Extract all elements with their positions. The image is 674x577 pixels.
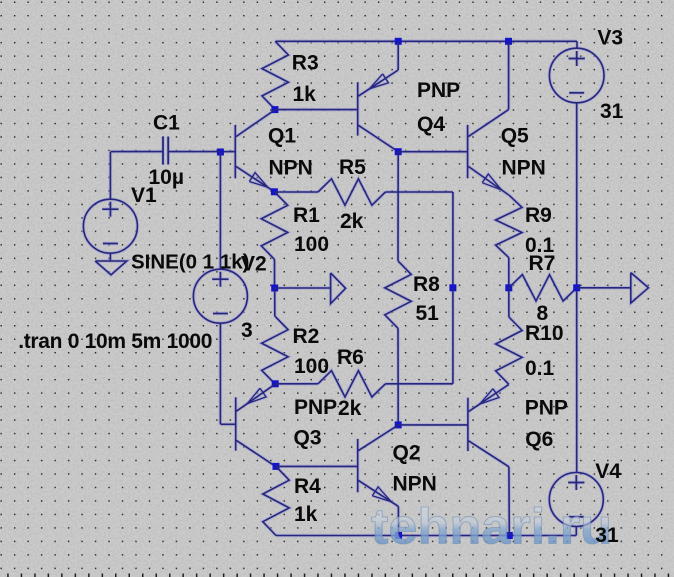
svg-text:R8: R8 [413, 273, 440, 296]
svg-text:R2: R2 [293, 325, 320, 348]
svg-text:V3: V3 [597, 27, 623, 50]
svg-text:R4: R4 [294, 475, 321, 498]
svg-text:31: 31 [600, 100, 624, 123]
svg-text:31: 31 [595, 524, 619, 547]
svg-text:1k: 1k [294, 503, 318, 526]
svg-text:SINE(0 1 1k): SINE(0 1 1k) [131, 251, 250, 274]
svg-text:Q4: Q4 [417, 113, 445, 136]
svg-text:R10: R10 [525, 322, 564, 345]
svg-text:R7: R7 [529, 252, 556, 275]
svg-text:V1: V1 [131, 184, 157, 207]
svg-text:tehnari.ru: tehnari.ru [371, 499, 612, 555]
svg-text:R5: R5 [339, 156, 366, 179]
svg-text:Q6: Q6 [525, 428, 553, 451]
svg-text:100: 100 [294, 233, 329, 256]
svg-text:PNP: PNP [525, 397, 568, 420]
svg-text:3: 3 [241, 319, 253, 342]
svg-text:Q2: Q2 [393, 442, 421, 465]
svg-text:R3: R3 [292, 51, 319, 74]
svg-text:2k: 2k [338, 397, 362, 420]
svg-text:2k: 2k [340, 210, 364, 233]
svg-text:NPN: NPN [502, 157, 546, 180]
svg-text:0.1: 0.1 [525, 357, 555, 380]
svg-text:Q3: Q3 [294, 427, 322, 450]
svg-text:Q5: Q5 [501, 125, 529, 148]
svg-text:R9: R9 [525, 204, 552, 227]
svg-text:NPN: NPN [269, 157, 313, 180]
svg-text:51: 51 [416, 302, 440, 325]
svg-text:PNP: PNP [417, 79, 460, 102]
svg-text:100: 100 [294, 355, 329, 378]
svg-text:PNP: PNP [294, 396, 337, 419]
svg-text:Q1: Q1 [268, 125, 296, 148]
svg-text:V4: V4 [595, 460, 621, 483]
svg-text:C1: C1 [153, 112, 180, 135]
svg-text:V2: V2 [241, 253, 267, 276]
svg-text:R1: R1 [293, 204, 320, 227]
svg-text:NPN: NPN [393, 473, 437, 496]
svg-text:.tran 0 10m 5m 1000: .tran 0 10m 5m 1000 [18, 330, 212, 353]
svg-text:1k: 1k [293, 83, 317, 106]
svg-text:R6: R6 [337, 346, 364, 369]
